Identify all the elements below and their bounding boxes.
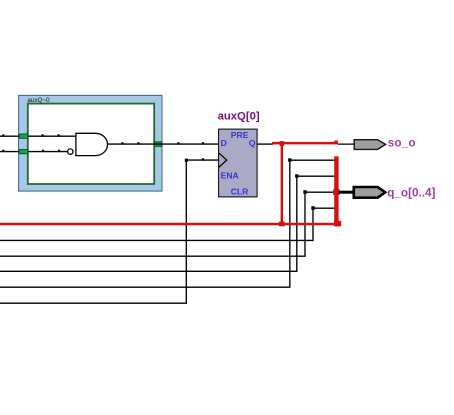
junction dot B	[295, 174, 298, 177]
svg-text:so_o: so_o	[388, 137, 416, 149]
so_o stub wire	[338, 143, 355, 145]
output port q_o	[354, 187, 385, 198]
svg-text:auxQ[0]: auxQ[0]	[218, 111, 260, 123]
vertex dot	[121, 142, 123, 144]
inverter bubble	[68, 149, 73, 154]
inner symbol frame	[28, 104, 154, 184]
output port so_o	[354, 140, 385, 150]
vertex dot	[58, 134, 60, 136]
svg-text:ENA: ENA	[221, 171, 239, 181]
q_o bus stub	[339, 191, 354, 194]
tap wire B	[0, 176, 334, 271]
vertex dot	[2, 150, 4, 152]
pin square left upper	[19, 134, 28, 138]
vertex dot	[137, 142, 139, 144]
red net horizontal bottom	[0, 223, 341, 226]
clock wire	[0, 160, 219, 303]
tap wire D	[0, 208, 334, 240]
vertex dot	[177, 142, 179, 144]
svg-text:auxQ~0: auxQ~0	[27, 97, 50, 104]
wire lower input	[0, 151, 68, 153]
vertex dot	[42, 150, 44, 152]
svg-text:q_o[0..4]: q_o[0..4]	[387, 186, 435, 199]
red net horizontal top (so_o net)	[272, 142, 338, 145]
Q output wire	[257, 143, 273, 145]
clock corner dot	[185, 159, 188, 162]
svg-text:PRE: PRE	[231, 130, 249, 140]
vertex dot	[202, 158, 204, 160]
hierarchical block auxQ~0 outer box	[19, 95, 162, 191]
red junction bottom right	[334, 221, 341, 227]
junction dot C	[303, 190, 306, 193]
vertex dot	[58, 150, 60, 152]
red junction at vertical 1	[280, 141, 285, 146]
vertex dot	[2, 134, 4, 136]
vertex dot	[202, 142, 204, 144]
flip-flop U2 box	[219, 129, 258, 197]
red junction bottom left	[279, 222, 285, 227]
clock triangle	[219, 153, 227, 167]
tap wire C	[0, 192, 334, 256]
wire upper input	[0, 135, 76, 137]
pin square left lower	[19, 150, 28, 154]
svg-text:Q: Q	[249, 138, 256, 148]
red net vertical 1	[281, 142, 283, 225]
vertex dot	[42, 134, 44, 136]
svg-text:CLR: CLR	[231, 186, 249, 196]
svg-text:D: D	[221, 138, 227, 148]
junction dot D	[311, 206, 314, 209]
NAND gate U1 body	[76, 133, 108, 155]
red bus junction q_o	[333, 189, 340, 195]
pin square right	[154, 142, 161, 147]
NAND output / D wire	[108, 143, 219, 145]
red net end nub	[334, 141, 338, 143]
tap wire A	[0, 160, 334, 287]
junction dot A	[288, 158, 291, 161]
red bus vertical 2	[334, 156, 338, 224]
